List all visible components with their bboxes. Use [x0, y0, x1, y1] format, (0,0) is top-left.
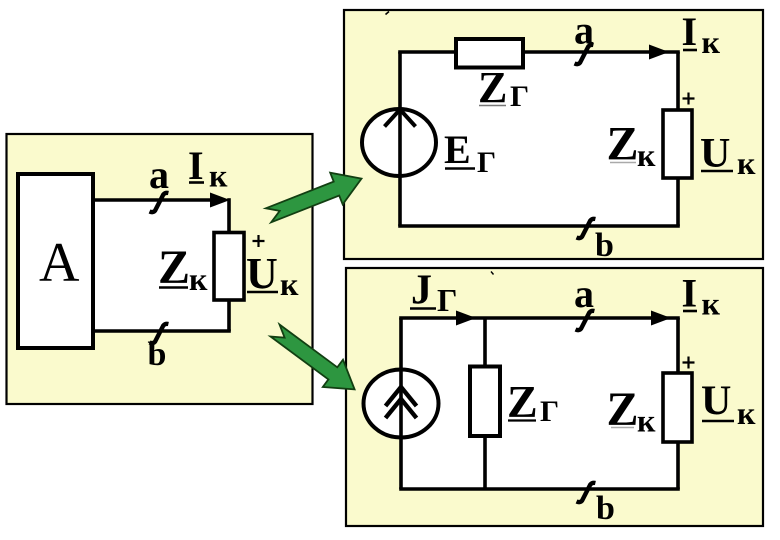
wire: left vertical conductor (Norton) — [399, 318, 403, 489]
svg-text:к: к — [702, 286, 721, 322]
svg-text:U: U — [701, 379, 731, 425]
current source shaft — [399, 370, 403, 437]
svg-text:к: к — [280, 266, 299, 302]
resistor Zk (left panel) — [214, 233, 244, 301]
node a tick (Thevenin) — [575, 45, 594, 64]
box A: active network — [18, 174, 93, 348]
svg-text:к: к — [702, 24, 721, 60]
svg-text:a: a — [149, 152, 169, 197]
wire: bottom conductor (Norton) — [399, 487, 680, 491]
EMF arrow barbs — [385, 110, 416, 127]
svg-text:b: b — [595, 227, 614, 264]
wire: right vertical conductor (Thevenin) — [676, 52, 680, 226]
wire: bottom conductor b-side (left panel) — [93, 329, 231, 333]
wire: top conductor (Thevenin) — [398, 50, 680, 54]
wire: vertical below Zk (left panel) — [227, 298, 231, 331]
svg-text:к: к — [637, 137, 656, 173]
svg-text:к: к — [637, 403, 656, 439]
svg-text:Г: Г — [437, 282, 457, 318]
svg-text:к: к — [737, 395, 756, 431]
svg-text:Z: Z — [507, 376, 538, 427]
white interior of Thevenin loop — [400, 52, 678, 226]
green arrow to Norton equivalent — [271, 325, 355, 390]
wire: right vertical conductor (left panel) — [227, 198, 231, 234]
svg-text:b: b — [596, 490, 615, 527]
svg-text:I: I — [682, 9, 698, 54]
wire: top conductor a-side (left panel) — [93, 198, 224, 202]
stray mark — [386, 12, 390, 15]
plus sign (Norton) — [683, 357, 695, 369]
svg-text:к: к — [189, 261, 208, 297]
svg-text:E: E — [444, 127, 471, 172]
wire: top conductor (Norton) — [399, 316, 680, 320]
svg-text:a: a — [574, 271, 594, 316]
plus sign (left panel) — [253, 235, 265, 247]
svg-text:к: к — [737, 145, 756, 181]
wire: bottom conductor (Thevenin) — [398, 224, 680, 228]
arrowhead of current Ik (left panel) — [210, 193, 230, 208]
resistor Zg (series) — [456, 39, 523, 68]
current source Jg circle — [364, 370, 439, 438]
node b tick (Thevenin) — [577, 219, 596, 238]
svg-text:Г: Г — [540, 395, 559, 428]
svg-text:J: J — [411, 268, 432, 314]
plus sign (Thevenin) — [683, 93, 695, 105]
wire: middle branch below Zg (Norton) — [483, 435, 487, 489]
panel: Norton equivalent circuit (bottom right) — [346, 268, 763, 526]
svg-text:Г: Г — [477, 146, 496, 179]
svg-text:А: А — [39, 232, 80, 294]
current source double chevron — [386, 387, 417, 406]
svg-text:b: b — [148, 336, 167, 373]
resistor Zg (parallel) — [470, 367, 500, 437]
svg-text:I: I — [682, 271, 698, 316]
panel: Thevenin equivalent circuit (top right) — [344, 10, 763, 259]
svg-text:Z: Z — [478, 63, 507, 112]
EMF source Eg circle — [362, 109, 436, 176]
node b tick (left panel) — [150, 324, 169, 343]
arrowhead of current Ik (Norton) — [651, 311, 671, 326]
EMF arrow shaft — [398, 109, 402, 176]
resistor Zk (Norton) — [663, 373, 692, 442]
stray mark — [491, 272, 494, 275]
wire: left vertical conductor (Thevenin) — [398, 52, 402, 226]
resistor Zk (Thevenin) — [663, 110, 692, 178]
arrowhead of source current Jg — [456, 311, 476, 326]
wire: right vertical conductor (Norton) — [676, 318, 680, 489]
svg-text:U: U — [246, 249, 278, 298]
panel: active two-terminal network A with load (left) — [7, 134, 313, 404]
green arrow to Thevenin equivalent — [266, 173, 362, 223]
node b tick (Norton) — [577, 483, 596, 502]
svg-text:a: a — [574, 8, 594, 53]
svg-text:Z: Z — [158, 241, 190, 294]
wire: middle branch above Zg (Norton) — [483, 318, 487, 368]
white interior of Norton loop — [401, 318, 678, 489]
white interior of left circuit loop — [93, 200, 229, 331]
svg-text:Г: Г — [510, 80, 529, 113]
node a tick (Norton) — [576, 311, 595, 330]
node a tick (left panel) — [150, 193, 169, 212]
arrowhead of current Ik (Thevenin) — [649, 45, 669, 60]
svg-text:к: к — [209, 158, 228, 194]
